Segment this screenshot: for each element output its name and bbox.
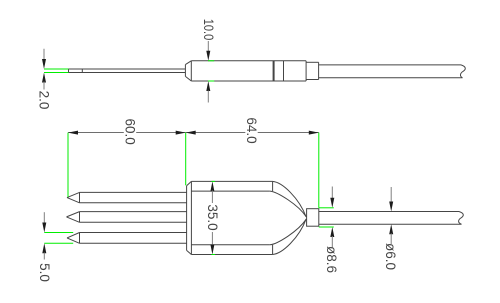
needle probe (side view) — [69, 69, 186, 73]
svg-text:35.0: 35.0 — [205, 204, 220, 230]
svg-text:2.0: 2.0 — [37, 91, 52, 110]
extension lines (green) for 2.0 — [44, 69, 69, 73]
svg-text:10.0: 10.0 — [201, 19, 216, 41]
green extension lines for 5.0 — [44, 233, 73, 244]
dimension line 64.0 — [186, 116, 319, 145]
green ticks at 35.0 arrow tips — [212, 181, 216, 254]
housing body (front view) — [187, 181, 273, 254]
prong 3 (bottom) — [67, 233, 187, 244]
svg-text:60.0: 60.0 — [123, 118, 138, 144]
cylindrical body (side view) — [191, 61, 306, 81]
cable gland (front view) — [307, 209, 319, 227]
dimension Ø6.0 (cable diameter) — [383, 187, 398, 270]
cable gland (side view) — [306, 62, 319, 79]
dimension 5.0 (prong diameter) — [37, 212, 52, 282]
svg-text:5.0: 5.0 — [37, 263, 52, 282]
green ticks at 10.0 arrow tips — [208, 61, 214, 81]
housing taper to cable gland — [270, 181, 306, 254]
green extension lines for 60.0 / 64.0 — [68, 133, 319, 208]
ring band thick — [273, 61, 275, 81]
svg-text:ø6.0: ø6.0 — [383, 243, 398, 270]
prong 1 (top) — [67, 192, 187, 202]
cable (side view) — [319, 65, 466, 78]
prong 2 (middle) — [67, 212, 187, 223]
svg-text:ø8.6: ø8.6 — [324, 246, 339, 273]
svg-text:64.0: 64.0 — [244, 117, 259, 143]
ring band thin — [283, 61, 285, 81]
dimension 10.0 (body diameter) — [201, 19, 216, 103]
cable (front view) — [319, 212, 463, 225]
body taper (left cone of cylinder) — [185, 61, 191, 81]
green extension lines for Ø8.6 — [319, 208, 334, 227]
dimension line 60.0 — [68, 117, 186, 146]
dimension 35.0 (housing height) — [205, 181, 220, 254]
dimension Ø8.6 (gland diameter) — [324, 187, 339, 274]
dimension 2.0 (needle thickness) — [37, 49, 52, 110]
